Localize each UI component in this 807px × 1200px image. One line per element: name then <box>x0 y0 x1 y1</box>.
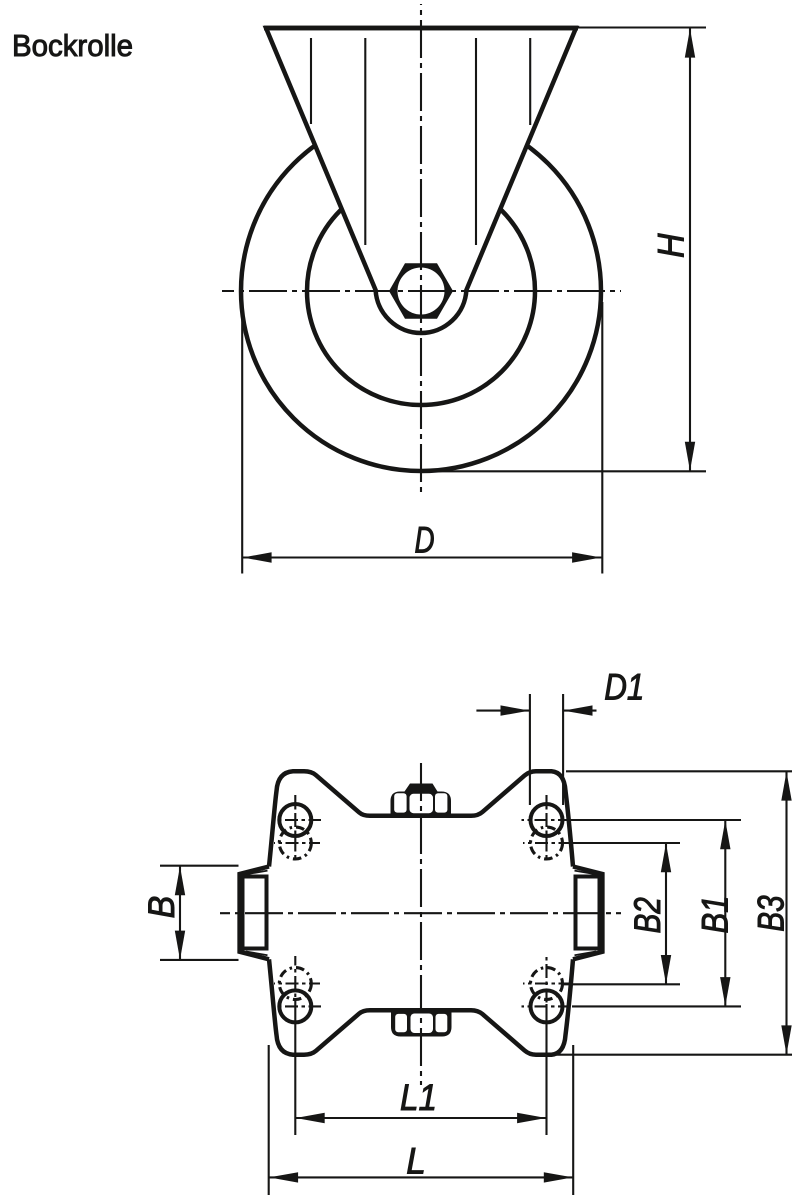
fork bend line left outer <box>310 38 312 124</box>
fork bend line right inner <box>475 38 477 245</box>
hole centerlines bottom-left <box>272 956 321 1006</box>
fork bend line left inner <box>364 38 366 245</box>
B2 extension line bottom <box>564 983 680 985</box>
right wheel tab <box>573 867 602 960</box>
B2 dimension line <box>665 843 667 984</box>
B1 arrow top <box>720 820 730 849</box>
H arrow bottom <box>685 442 695 471</box>
B3 extension line top <box>566 770 792 772</box>
B label <box>141 896 183 919</box>
axle bore circle <box>398 268 445 315</box>
plate vertical centerline <box>420 763 422 1085</box>
D label <box>414 519 434 561</box>
H dimension extension line bottom <box>421 470 706 472</box>
L arrow right <box>544 1172 573 1182</box>
kingpin nut bottom <box>391 1010 452 1037</box>
axle hex nut <box>389 263 453 318</box>
L arrow left <box>269 1172 298 1182</box>
B dimension line <box>179 866 181 960</box>
B dimension extension line top <box>160 865 239 867</box>
D1 dimension line left part <box>476 710 530 712</box>
svg-text:B1: B1 <box>695 895 736 933</box>
plate outline top half <box>269 771 573 866</box>
hidden hole top-left <box>279 827 311 859</box>
wheel hub circle <box>307 177 535 405</box>
L1 dimension line <box>295 1117 546 1119</box>
H dimension extension line top <box>578 26 706 28</box>
D dimension extension line right <box>601 302 603 574</box>
B2 arrow bottom <box>661 955 671 984</box>
H arrow top <box>685 29 695 58</box>
svg-text:Bockrolle: Bockrolle <box>12 29 133 63</box>
L1 extension line left <box>294 1004 296 1135</box>
L1 arrow left <box>296 1113 325 1123</box>
D arrow left <box>243 552 272 562</box>
D1 extension line left <box>529 694 531 805</box>
B1 extension line bottom <box>572 1005 741 1007</box>
fork top plate edge <box>264 26 578 31</box>
L label <box>406 1140 426 1182</box>
svg-text:L1: L1 <box>400 1077 437 1118</box>
bolt hole top-right <box>531 804 563 836</box>
B1 extension line top <box>570 819 741 821</box>
L1 arrow right <box>517 1113 546 1123</box>
B dimension extension line bottom <box>160 959 239 961</box>
left wheel tab <box>240 867 269 960</box>
svg-text:D1: D1 <box>604 667 644 708</box>
wheel vertical centerline <box>420 4 422 495</box>
B3 arrow bottom <box>781 1025 791 1054</box>
svg-text:D: D <box>414 519 434 561</box>
L1 extension line right <box>545 1004 547 1135</box>
title Bockrolle <box>12 29 133 63</box>
H label <box>650 233 692 258</box>
B arrow top <box>175 866 185 895</box>
D1 arrow left <box>501 705 530 715</box>
B2 arrow top <box>661 843 671 872</box>
fork bracket outline <box>266 28 576 333</box>
wheel horizontal centerline <box>222 290 621 292</box>
svg-text:L: L <box>406 1140 426 1182</box>
fork bend line right outer <box>529 38 531 125</box>
plate outline bottom half <box>269 959 573 1054</box>
D1 extension line right <box>562 694 564 805</box>
hidden hole bottom-right <box>531 968 563 1000</box>
hole centerlines bottom-right <box>522 956 571 1006</box>
L extension line left <box>268 1045 270 1195</box>
svg-text:B3: B3 <box>751 895 792 932</box>
hidden hole bottom-left <box>279 968 311 1000</box>
B2 label <box>628 897 669 934</box>
plate horizontal centerline <box>220 912 621 914</box>
L dimension line <box>269 1176 574 1178</box>
B2 extension line top <box>564 842 680 844</box>
D1 label <box>604 667 644 708</box>
svg-text:B2: B2 <box>628 897 669 934</box>
B1 arrow bottom <box>720 977 730 1006</box>
B1 dimension line <box>724 820 726 1006</box>
D dimension extension line left <box>241 302 243 574</box>
hidden hole top-right <box>531 827 563 859</box>
L extension line right <box>572 1045 574 1195</box>
B3 extension line bottom <box>556 1054 792 1056</box>
B arrow bottom <box>175 931 185 960</box>
hole centerlines top-right <box>522 795 571 861</box>
hole centerlines top-left <box>272 795 321 861</box>
bolt hole bottom-right <box>531 990 563 1022</box>
B1 label <box>695 895 736 933</box>
B3 label <box>751 895 792 932</box>
D dimension line <box>242 556 601 558</box>
bolt hole top-left <box>279 804 311 836</box>
D1 arrow right <box>564 705 593 715</box>
L1 label <box>400 1077 437 1118</box>
bolt hole bottom-left <box>279 990 311 1022</box>
B3 arrow top <box>781 772 791 801</box>
D1 dimension line right part <box>563 710 596 712</box>
svg-text:B: B <box>141 896 183 919</box>
H dimension line <box>689 28 691 471</box>
svg-text:H: H <box>650 233 692 258</box>
wheel outer circle <box>241 111 601 471</box>
B3 dimension line <box>785 771 787 1054</box>
D arrow right <box>572 552 601 562</box>
kingpin nut top <box>391 784 452 817</box>
